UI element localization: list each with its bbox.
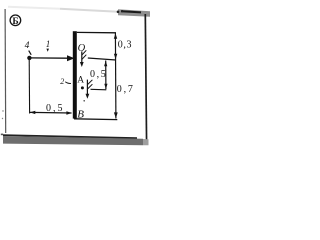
svg-text:2: 2 <box>60 77 64 86</box>
svg-text:B: B <box>77 108 84 120</box>
svg-text:0,7: 0,7 <box>117 84 135 95</box>
svg-text:A: A <box>77 76 84 86</box>
svg-text:Б: Б <box>12 17 18 27</box>
svg-text:O: O <box>78 43 86 54</box>
svg-text:0,5: 0,5 <box>90 69 107 80</box>
svg-text:1: 1 <box>46 39 51 49</box>
svg-text:0,3: 0,3 <box>118 40 132 51</box>
svg-text:0,5: 0,5 <box>46 103 65 114</box>
svg-text:4: 4 <box>25 41 30 51</box>
